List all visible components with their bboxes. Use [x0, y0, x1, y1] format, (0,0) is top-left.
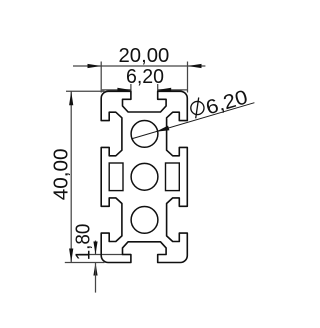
- arrowhead 20,00 right: [188, 64, 202, 68]
- profile outline (20x40 extrusion, 6 T-slots): [101, 91, 187, 262]
- side cavity rectangle left: [109, 163, 123, 191]
- svg-text:1,80: 1,80: [73, 224, 95, 261]
- dimension line 1,80 upper tail: [95, 241, 97, 255]
- dimension line 40,00: [70, 91, 72, 262]
- svg-text:6,20: 6,20: [126, 66, 164, 88]
- extension line 40,00 bottom: [65, 262, 105, 264]
- leader text diameter symbol circle: [191, 101, 204, 114]
- arrowhead 6,20 right: [158, 88, 172, 92]
- leader line diameter callout: [131, 103, 254, 139]
- extension line 40,00 top: [66, 90, 105, 92]
- arrowhead 1,80 upper (pointing down): [93, 242, 97, 255]
- side cavity rectangle right: [166, 163, 180, 191]
- extension line 20,00 left: [100, 62, 102, 93]
- extension line 6,20 right: [157, 84, 159, 95]
- arrowhead 6,20 left: [117, 88, 130, 92]
- core bore circle middle: [131, 163, 158, 190]
- svg-text:40,00: 40,00: [50, 149, 72, 201]
- leader arrowhead: [155, 126, 169, 134]
- arrowhead 40,00 bottom: [69, 249, 73, 263]
- extension line 6,20 left: [130, 84, 132, 95]
- core bore circle top: [131, 120, 158, 147]
- dimension line 20,00: [73, 65, 205, 67]
- arrowhead 1,80 lower (pointing up): [93, 263, 97, 276]
- extension line 1,80 upper: [79, 254, 131, 256]
- dimension line 6,20 right segment: [158, 89, 188, 91]
- extension line 20,00 right: [187, 62, 189, 93]
- arrowhead 40,00 top: [69, 91, 73, 105]
- arrowhead 20,00 left: [88, 64, 102, 68]
- leader text diameter symbol slash: [196, 98, 199, 119]
- dimension line 1,80 lower tail: [95, 263, 97, 293]
- core bore circle bottom: [131, 207, 158, 234]
- dimension line 6,20 left segment: [102, 89, 131, 91]
- svg-text:20,00: 20,00: [119, 45, 170, 67]
